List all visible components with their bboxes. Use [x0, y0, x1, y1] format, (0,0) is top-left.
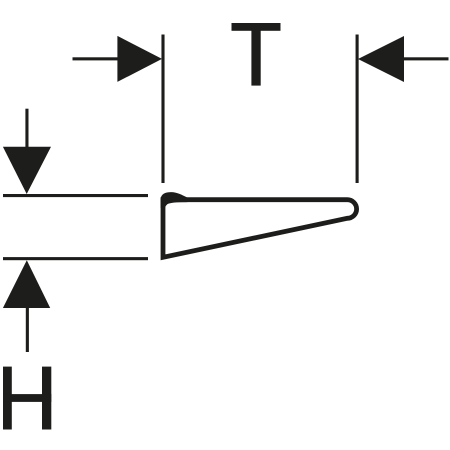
dimension H: bottom arrowhead [3, 260, 50, 308]
dimension T: right extension line [356, 35, 359, 184]
dimension H: top extension line [3, 194, 148, 197]
label T [232, 23, 281, 86]
dimension H: bottom extension line [3, 257, 148, 260]
dimension T: left arrow tail [73, 57, 119, 60]
dimension T: right arrowhead [358, 36, 404, 82]
wedge seal profile outline [163, 200, 357, 258]
dimension T: right arrow tail [402, 57, 449, 60]
label H [3, 367, 51, 430]
dimension T: left arrowhead [117, 36, 162, 82]
dimension H: bottom arrow tail [26, 307, 29, 352]
dimension H: top arrowhead [3, 147, 51, 194]
dimension H: top arrow tail [25, 109, 28, 148]
wedge profile bead (rounded bump at top-left) [161, 192, 188, 208]
dimension T: left extension line [161, 35, 164, 184]
